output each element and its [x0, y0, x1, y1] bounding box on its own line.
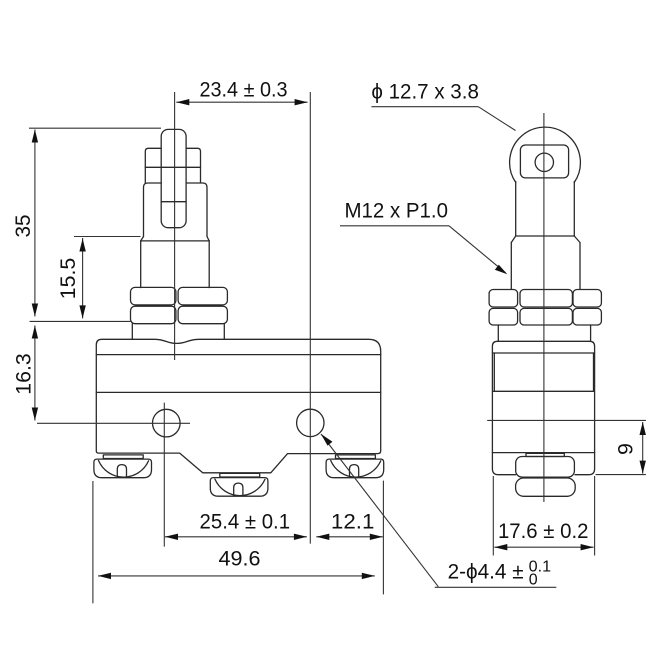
svg-text:25.4 ± 0.1: 25.4 ± 0.1	[200, 509, 291, 533]
svg-text:0: 0	[529, 572, 538, 589]
svg-text:12.1: 12.1	[331, 509, 375, 533]
svg-text:M12 x P1.0: M12 x P1.0	[345, 199, 449, 223]
svg-text:ϕ 12.7 x 3.8: ϕ 12.7 x 3.8	[371, 80, 479, 104]
svg-text:15.5: 15.5	[56, 258, 80, 300]
svg-text:23.4 ± 0.3: 23.4 ± 0.3	[200, 77, 288, 101]
svg-text:2-ϕ4.4 ±: 2-ϕ4.4 ±	[448, 560, 524, 584]
svg-text:49.6: 49.6	[219, 547, 261, 571]
svg-text:16.3: 16.3	[12, 353, 36, 395]
svg-text:9: 9	[614, 443, 638, 455]
svg-text:17.6 ± 0.2: 17.6 ± 0.2	[498, 519, 589, 543]
svg-text:35: 35	[11, 214, 35, 237]
